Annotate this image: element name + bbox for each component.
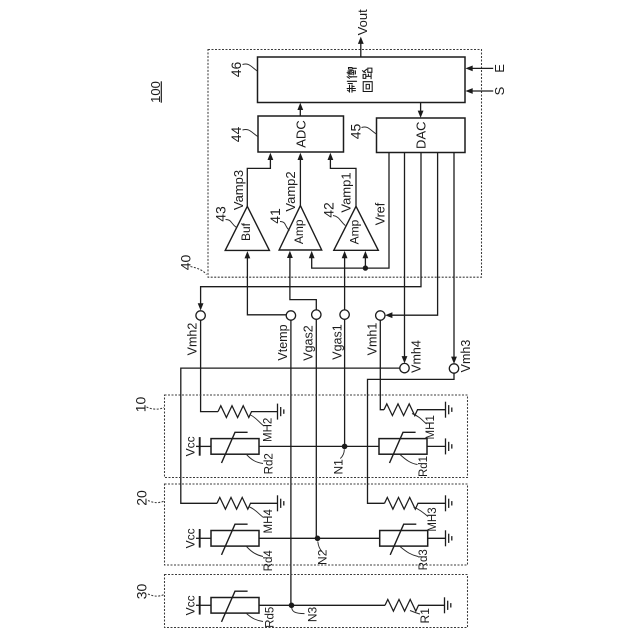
ground Rd1 xyxy=(446,438,452,454)
svg-text:Vout: Vout xyxy=(355,9,370,35)
svg-text:30: 30 xyxy=(134,584,150,600)
wire MH1 to ground xyxy=(417,409,446,411)
junction Vref node xyxy=(363,265,368,270)
svg-text:Rd3: Rd3 xyxy=(418,549,430,570)
svg-text:Vref: Vref xyxy=(373,202,387,225)
wire Amp41 output to ADC xyxy=(298,153,304,206)
thermistor Rd4 xyxy=(211,524,259,555)
svg-text:Rd2: Rd2 xyxy=(263,453,275,474)
heater resistor MH2 xyxy=(218,406,252,418)
svg-text:N2: N2 xyxy=(316,549,330,565)
svg-text:40: 40 xyxy=(177,255,193,271)
thermistor Rd5 xyxy=(211,591,259,622)
terminal Vgas1 xyxy=(331,310,350,360)
label 43 xyxy=(213,206,237,227)
svg-text:ADC: ADC xyxy=(293,120,308,147)
dashed sensor block 20 boundary xyxy=(165,484,468,565)
wire MH2 to ground xyxy=(251,411,278,413)
svg-text:Vcc: Vcc xyxy=(183,595,197,615)
thermistor Rd3 xyxy=(380,524,428,555)
wire Vref branch to amp42 input xyxy=(363,251,369,268)
svg-text:Vcc: Vcc xyxy=(183,528,197,548)
wire Vtemp down to node N3 xyxy=(290,320,292,605)
svg-text:Vgas2: Vgas2 xyxy=(302,325,316,360)
input E xyxy=(465,64,507,73)
ADC U44 xyxy=(258,116,344,152)
svg-text:Vmh1: Vmh1 xyxy=(365,323,379,356)
terminal Vmh2 xyxy=(185,311,205,356)
label 42 xyxy=(320,202,345,225)
wire DAC to Vmh3 xyxy=(451,153,457,364)
svg-text:Amp: Amp xyxy=(348,219,362,244)
node N2 xyxy=(315,536,330,565)
label Rd3 xyxy=(400,547,430,571)
svg-text:20: 20 xyxy=(134,490,150,506)
Vout terminal xyxy=(355,9,370,57)
svg-text:Vtemp: Vtemp xyxy=(276,324,290,360)
thermistor Rd2 xyxy=(211,432,259,463)
svg-text:E: E xyxy=(492,64,507,73)
svg-text:Rd4: Rd4 xyxy=(263,550,275,572)
label R1 xyxy=(410,608,432,624)
svg-text:Vmh3: Vmh3 xyxy=(459,340,473,373)
op-amp U42 Amp xyxy=(334,206,379,250)
ground R1 xyxy=(445,597,451,613)
heater resistor MH3 xyxy=(385,497,419,509)
label 10 xyxy=(133,397,165,413)
heater resistor MH4 xyxy=(217,497,251,509)
svg-text:Buf: Buf xyxy=(239,222,253,241)
wire Vmh4 to MH4 xyxy=(181,368,400,503)
wire Vmh1 to MH1 xyxy=(380,320,384,410)
ground MH4 xyxy=(278,495,284,511)
svg-text:Rd5: Rd5 xyxy=(265,607,277,628)
svg-text:Vgas1: Vgas1 xyxy=(331,324,345,359)
svg-text:44: 44 xyxy=(228,127,244,143)
wire DAC to Vmh4 xyxy=(402,153,408,364)
svg-text:Vcc: Vcc xyxy=(183,436,197,456)
wire Vcc to Rd5 xyxy=(196,604,211,606)
node N3 xyxy=(289,603,320,623)
label 20 xyxy=(134,490,165,506)
wire Amp42 input from Vgas1 xyxy=(342,251,348,310)
ground MH1 xyxy=(446,402,452,418)
svg-text:DAC: DAC xyxy=(413,121,428,148)
svg-text:Amp: Amp xyxy=(292,219,306,244)
DAC U45 xyxy=(377,118,466,153)
svg-text:45: 45 xyxy=(347,124,363,140)
wire Rd2 to Rd1 xyxy=(259,445,379,447)
supply Vcc box30 xyxy=(183,595,199,615)
wire Amp42 output to ADC xyxy=(328,153,357,207)
input S xyxy=(465,86,507,95)
svg-text:Vmh4: Vmh4 xyxy=(410,340,424,373)
dashed sensor block 10 boundary xyxy=(165,395,468,478)
label Rd1 xyxy=(400,455,430,478)
dashed sensor block 30 boundary xyxy=(165,575,468,628)
label MH3 xyxy=(414,507,439,532)
wire MH4 to ground xyxy=(250,502,278,504)
label Rd5 xyxy=(247,607,277,628)
svg-text:MH4: MH4 xyxy=(263,509,275,534)
svg-text:Vamp2: Vamp2 xyxy=(283,171,298,211)
wire Vcc to Rd2 xyxy=(196,445,211,447)
svg-text:MH3: MH3 xyxy=(427,507,439,531)
svg-text:N3: N3 xyxy=(306,607,320,623)
terminal Vmh4 xyxy=(400,340,424,373)
ground Rd3 xyxy=(446,530,452,546)
svg-text:Vamp1: Vamp1 xyxy=(338,172,353,212)
svg-text:R1: R1 xyxy=(418,608,432,624)
label MH4 xyxy=(249,507,276,534)
label 40 xyxy=(177,255,206,275)
svg-text:Vmh2: Vmh2 xyxy=(185,323,199,356)
ground MH3 xyxy=(446,495,452,511)
wire DAC to Vmh1 xyxy=(385,153,438,319)
wire Vcc to Rd4 xyxy=(196,537,211,539)
wire Buf input from Vtemp xyxy=(245,251,287,315)
heater resistor MH1 xyxy=(384,404,418,416)
wire Vmh2 to MH2 xyxy=(201,320,218,411)
buffer amp U43 Buf xyxy=(225,206,269,250)
svg-text:N1: N1 xyxy=(331,459,345,475)
wire Rd3 to ground xyxy=(428,537,446,539)
label 44 xyxy=(228,127,258,143)
svg-text:Vamp3: Vamp3 xyxy=(231,170,246,210)
label 45 xyxy=(347,124,376,140)
svg-text:MH2: MH2 xyxy=(263,418,275,442)
thermistor Rd1 xyxy=(379,432,427,463)
wire Rd1 to ground xyxy=(427,445,446,447)
control circuit label (hand-drawn kanji) xyxy=(347,68,372,93)
svg-text:S: S xyxy=(492,86,507,95)
wire Amp41 input from Vgas2 xyxy=(287,251,316,311)
svg-text:Rd1: Rd1 xyxy=(418,456,430,477)
label Rd2 xyxy=(247,453,276,474)
terminal Vtemp xyxy=(276,311,295,361)
terminal Vmh1 xyxy=(365,311,385,356)
label MH2 xyxy=(250,415,275,442)
wire Vgas1 down to node N1 xyxy=(344,319,346,446)
control circuit box U46 xyxy=(258,57,466,103)
svg-text:MH1: MH1 xyxy=(425,415,437,439)
ground MH2 xyxy=(278,404,284,420)
wire DAC to Vmh2 xyxy=(198,153,421,311)
wire Rd4 to Rd3 xyxy=(259,537,380,539)
label Rd4 xyxy=(247,547,276,572)
wire ADC to control circuit xyxy=(297,103,303,116)
node N1 xyxy=(331,444,347,475)
terminal Vgas2 xyxy=(302,310,321,361)
svg-text:10: 10 xyxy=(133,397,149,413)
svg-text:46: 46 xyxy=(228,62,244,78)
label 46 xyxy=(228,62,257,78)
dashed block 40 boundary xyxy=(208,50,482,278)
wire Vref from DAC xyxy=(309,153,389,269)
label 30 xyxy=(134,584,165,600)
op-amp U41 Amp xyxy=(279,206,322,250)
supply Vcc box10 xyxy=(183,436,199,456)
resistor R1 xyxy=(385,599,419,611)
wire Rd5 to R1 xyxy=(259,604,385,606)
label MH1 xyxy=(412,414,437,440)
wire Vmh3 to MH3 xyxy=(368,373,455,503)
wire control circuit to DAC xyxy=(418,103,424,118)
wire Buf output to ADC xyxy=(247,153,273,207)
wire MH3 to ground xyxy=(418,502,446,504)
wire R1 to ground xyxy=(418,604,445,606)
figure label 100 xyxy=(148,81,163,103)
terminal Vmh3 xyxy=(449,340,473,374)
wire Vgas2 down to node N2 xyxy=(315,319,317,538)
label 41 xyxy=(267,208,289,230)
supply Vcc box20 xyxy=(183,528,199,548)
